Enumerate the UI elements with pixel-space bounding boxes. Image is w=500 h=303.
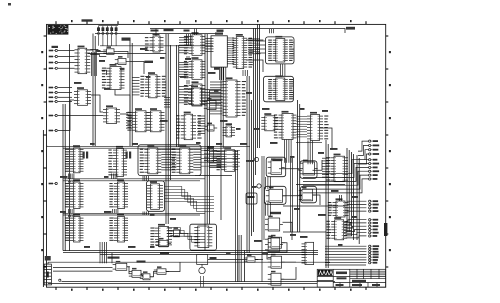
IC U49 bbox=[327, 217, 348, 240]
wire U5 top to bus b bbox=[196, 29, 198, 35]
cap C1 bbox=[83, 152, 85, 159]
wires top bus drop x186 bbox=[187, 34, 191, 46]
title block date bbox=[336, 284, 344, 286]
label ref 19 bbox=[104, 176, 109, 178]
wires J3 to gates bbox=[53, 268, 113, 272]
connector J1 pin 8 bbox=[49, 114, 58, 116]
label ref 16 bbox=[90, 143, 95, 145]
connector J2 pin 24 bbox=[369, 253, 379, 255]
title block sheet bbox=[352, 284, 362, 286]
IC U5 latch bbox=[184, 32, 206, 55]
label bottom note bbox=[137, 261, 146, 263]
connector J2 pin 11 bbox=[369, 200, 379, 202]
wire circles to U14 bbox=[58, 115, 103, 117]
flip-flop U46a bbox=[268, 235, 285, 248]
bus vertical data bus x253-260 bbox=[254, 25, 260, 233]
wire mid right 3 bbox=[283, 231, 326, 233]
label top note a bbox=[151, 30, 159, 32]
wire gate U3a out bbox=[117, 52, 128, 59]
IC U36 bbox=[65, 179, 83, 208]
wire U43a to U43b bbox=[279, 169, 302, 170]
wire U51b to U51c bbox=[141, 274, 143, 277]
label ref 7 bbox=[214, 90, 219, 92]
IC U41 bbox=[150, 224, 172, 247]
IC U29 bbox=[274, 111, 297, 140]
IC U9 ROM bbox=[233, 34, 253, 69]
IC U39 bbox=[65, 214, 83, 242]
connector J2 pin 20 bbox=[369, 235, 378, 237]
border tick marks bbox=[8, 3, 391, 291]
label ref 20 bbox=[60, 211, 66, 213]
gate U42a bbox=[170, 227, 182, 236]
label ref 41 bbox=[352, 196, 358, 198]
array row2 col1 rises bbox=[69, 181, 74, 183]
IC U40 bbox=[109, 214, 128, 242]
label ref 13 bbox=[196, 142, 201, 144]
flip-flop U46b bbox=[268, 254, 285, 268]
array row3 col1 rises bbox=[69, 215, 74, 217]
connector J4 bbox=[302, 242, 314, 264]
IC U22 bbox=[223, 123, 236, 137]
bus vertical x221 bbox=[221, 67, 223, 220]
IC U24 bbox=[268, 36, 293, 62]
wire mid connector bbox=[320, 128, 333, 150]
wire U48 up pair b bbox=[341, 195, 343, 201]
box RAM pair 1 bbox=[266, 37, 295, 64]
gate U51a bbox=[113, 261, 130, 270]
connector J2 pin 21 bbox=[369, 245, 380, 247]
oscillator Y1 bbox=[197, 254, 208, 273]
wire J1 to U2 bbox=[58, 62, 75, 64]
wires bus to box1 bbox=[256, 41, 266, 53]
wire U45a out bbox=[283, 222, 293, 240]
label U8 bbox=[215, 33, 223, 35]
gate U51b bbox=[129, 268, 144, 277]
wire u55 left bbox=[102, 70, 107, 75]
wire top bus 2 bbox=[100, 45, 213, 47]
label ref 48 bbox=[220, 120, 228, 122]
label signal name top-left bbox=[52, 46, 59, 48]
array row2 col1 drops bbox=[69, 209, 74, 214]
label FF section 2 bbox=[273, 159, 283, 161]
label ref 10 bbox=[300, 108, 305, 110]
label ref 37 bbox=[226, 252, 231, 254]
wire bottom bus 2 bbox=[63, 252, 318, 254]
wires FF col drops bbox=[266, 177, 271, 189]
label ref 32 bbox=[290, 234, 296, 236]
flip-flop U44a bbox=[266, 187, 286, 202]
wire row1 top b bbox=[63, 147, 224, 149]
label ref 18 bbox=[60, 176, 68, 178]
wires U6 left to bus bbox=[179, 62, 189, 76]
label bottom note 2 bbox=[108, 257, 120, 259]
wire bottom bus 1 bbox=[63, 250, 318, 252]
label ref 5 bbox=[185, 58, 191, 60]
wires U12 right bbox=[164, 98, 170, 107]
wire long bottom 2 bbox=[48, 283, 317, 285]
wires U29 to U30 bbox=[297, 117, 308, 137]
label ref 45 bbox=[74, 82, 82, 84]
label DL1 bbox=[248, 196, 255, 198]
wire bottom left bbox=[47, 262, 49, 264]
revision mark on right border bbox=[384, 223, 387, 236]
wire array row sep 2b bbox=[63, 214, 200, 216]
wire right bottom link bbox=[325, 264, 366, 266]
connector J1 pin 9 bbox=[49, 129, 58, 131]
wires osc to bottom edge bbox=[201, 276, 204, 287]
connector J2 pin 3 bbox=[369, 149, 379, 151]
wire long bottom bbox=[62, 280, 336, 282]
label ref 33 bbox=[254, 240, 262, 242]
connector J1 pin 10 bbox=[49, 182, 58, 184]
label ref 38 bbox=[262, 252, 268, 254]
box FF pair B bbox=[300, 161, 317, 179]
label ref 12 bbox=[160, 120, 168, 122]
label ref 28 bbox=[252, 186, 257, 188]
IC U56 small bbox=[204, 146, 217, 162]
IC U16 bbox=[127, 108, 149, 132]
IC U32 bbox=[65, 145, 83, 173]
gate U54 bbox=[244, 254, 258, 262]
wire J1 group2 bbox=[58, 87, 72, 89]
wire u55 bottom bbox=[115, 90, 130, 111]
wires U34 right to wires bbox=[161, 150, 176, 170]
wires to connector J2 bbox=[303, 141, 369, 263]
wire vert x262 bbox=[261, 156, 263, 282]
wire J1 to U2 bbox=[58, 50, 75, 52]
wire U4 top to bus bbox=[155, 29, 157, 37]
wire J1 to U2 bbox=[58, 67, 75, 69]
box FF pair C bbox=[301, 186, 317, 203]
label ref 29 bbox=[294, 208, 300, 210]
label FF section bbox=[270, 212, 281, 214]
label ref 40 bbox=[338, 244, 343, 246]
connector J2 pin 2 bbox=[369, 144, 380, 146]
cap C1b bbox=[86, 152, 88, 159]
connector J2 pin 6 bbox=[369, 162, 380, 164]
box FF pair A bbox=[266, 157, 286, 177]
U8 pin fan bbox=[227, 38, 234, 65]
wire vert x264 bbox=[263, 156, 265, 240]
delay box DL1 bbox=[246, 193, 257, 204]
wire top bus bbox=[95, 33, 215, 35]
wires U49 right bbox=[344, 222, 352, 236]
label ref 25 bbox=[290, 156, 295, 158]
label ref 34 bbox=[150, 246, 155, 248]
IC U2 buffer bbox=[75, 46, 91, 74]
wire J1 group2 bbox=[58, 96, 72, 98]
label ref 24 bbox=[246, 160, 254, 162]
connector J2 pin 18 bbox=[369, 228, 378, 230]
wires U5-U6 links bbox=[187, 56, 189, 60]
label ref 15 bbox=[240, 143, 248, 145]
label ref 42 bbox=[331, 190, 339, 192]
IC U37 bbox=[109, 179, 128, 208]
wire array row sep 1 bbox=[63, 178, 205, 180]
connector J2 pin 9 bbox=[369, 174, 378, 176]
wires box1 to box2 bbox=[281, 64, 285, 76]
bus vertical x239-245 bottom bbox=[239, 235, 245, 282]
wires array col1 to bottom gates bbox=[100, 242, 107, 263]
title block title text bbox=[337, 277, 347, 279]
title block logo bbox=[318, 270, 333, 276]
label J3 note bbox=[45, 256, 51, 261]
label above U11 bbox=[145, 61, 154, 63]
wire u9 to ram boxes 2 bbox=[246, 60, 263, 72]
label ref 43 bbox=[120, 68, 125, 70]
IC U48 bbox=[328, 198, 349, 217]
wire vert x235 bbox=[235, 150, 237, 282]
wire vert x237 bbox=[237, 150, 239, 282]
wire vert x292 bbox=[292, 158, 294, 232]
connector J2 pin 13 bbox=[369, 207, 378, 209]
box RAM pair 2 bbox=[264, 76, 294, 102]
wires U11 left to bus bbox=[132, 78, 139, 95]
label ref 2 bbox=[99, 60, 105, 62]
wire J1 to U2 bbox=[58, 56, 75, 58]
label ref 14 bbox=[216, 143, 222, 145]
gate U52b bbox=[156, 238, 171, 247]
connector J2 pin 27 bbox=[369, 262, 378, 264]
wire U46c out bbox=[281, 267, 296, 279]
connector J1 pin 7 bbox=[49, 100, 58, 102]
box U53 timer bbox=[190, 224, 217, 250]
title block drawing number bbox=[352, 280, 366, 282]
wire row1 top bbox=[48, 145, 250, 147]
wires U7 left to bus bbox=[179, 87, 189, 103]
label ref 3 bbox=[140, 48, 148, 50]
connector J1 pin 1 bbox=[49, 49, 58, 51]
wire mid right 2 bbox=[283, 205, 345, 207]
IC U17 bbox=[147, 108, 165, 132]
wires U30 drop bbox=[308, 141, 312, 165]
label ref 1 bbox=[96, 50, 101, 52]
wire U43b out bbox=[313, 160, 323, 170]
wire U48 up pair a bbox=[339, 195, 341, 201]
label ref 8 bbox=[246, 92, 252, 94]
bus vertical x205 bbox=[205, 34, 209, 251]
array row1 col2 drops bbox=[112, 174, 117, 180]
flip-flop U43b bbox=[300, 160, 318, 175]
label ref 31 bbox=[352, 216, 357, 218]
wire array row sep 1b bbox=[63, 180, 200, 182]
wires U18 right to bus bbox=[198, 116, 205, 134]
wire U15 to U16 bbox=[120, 114, 132, 116]
bus vertical x326 bbox=[326, 140, 328, 268]
wires U23 left from bus bbox=[210, 152, 222, 168]
gate U52a bbox=[154, 266, 169, 274]
IC U18 bbox=[176, 112, 202, 140]
label bottom bar bbox=[160, 252, 169, 254]
label ref 22 bbox=[150, 214, 155, 216]
IC U19 bbox=[188, 85, 205, 105]
IC U30 bbox=[307, 112, 329, 141]
label ref 50 bbox=[254, 128, 260, 130]
wires U19 right to bus bbox=[205, 90, 221, 104]
label ref 9 bbox=[262, 108, 270, 110]
wires U8 box drops bbox=[220, 67, 226, 80]
sheet border frame bbox=[43, 24, 385, 287]
box FF pair D bbox=[265, 186, 287, 204]
wire U46b out bbox=[282, 261, 297, 263]
wire U2 out right bbox=[87, 49, 93, 51]
bus vertical x247 bbox=[247, 76, 251, 253]
wires U21 left from bus bbox=[210, 82, 223, 114]
IC U35 bbox=[172, 145, 194, 174]
wire u30 bottom bbox=[296, 142, 322, 144]
wire mid right bbox=[296, 184, 345, 186]
label top note c bbox=[184, 30, 190, 32]
array row1 box drops bbox=[143, 176, 148, 181]
wire U44b out bbox=[313, 195, 321, 205]
connector J2 pin 12 bbox=[369, 203, 379, 205]
IC U28 bbox=[261, 113, 278, 131]
wires U6-U7 links bbox=[187, 80, 189, 84]
wire J1 group2 bbox=[58, 101, 72, 103]
IC U14 bbox=[74, 87, 91, 105]
wires U5 right to U8 bbox=[206, 39, 214, 52]
wire bottom bus 3 bbox=[100, 253, 318, 255]
IC U38 bbox=[147, 181, 163, 209]
label ref 11 bbox=[322, 110, 328, 112]
connector J2 pin 1 bbox=[369, 140, 378, 142]
connector J1 pin 4 bbox=[49, 86, 58, 88]
label ref 36 bbox=[128, 246, 136, 248]
wires U16 left to bus bbox=[126, 113, 132, 129]
label ref 51 bbox=[270, 142, 278, 144]
connector J2 pin 14 bbox=[369, 210, 379, 212]
wire U51c to U52a bbox=[150, 272, 157, 277]
wires FF col drops 2 bbox=[266, 202, 271, 216]
flip-flop U45b bbox=[265, 236, 283, 251]
bus vertical right cluster x347 bbox=[347, 148, 359, 244]
gate U51c bbox=[140, 271, 153, 279]
gate U20b bbox=[204, 123, 217, 131]
wire U51a to U51b bbox=[127, 267, 132, 274]
label ref 49 bbox=[236, 128, 241, 130]
IC U4 bbox=[145, 33, 164, 52]
label ref 35 bbox=[84, 246, 90, 248]
connector J2 pin 16 bbox=[369, 222, 378, 224]
connector J2 pin 15 bbox=[369, 219, 379, 221]
IC U21 decoder bbox=[223, 77, 247, 117]
wire U5 top to bus a bbox=[194, 29, 196, 35]
label ref 46 bbox=[146, 76, 151, 78]
wire u9 to ram boxes bbox=[246, 39, 263, 41]
connector J2 pin 7 bbox=[369, 166, 378, 168]
wire u23 bottom link bbox=[195, 175, 232, 177]
connector J2 pin 19 bbox=[369, 232, 379, 234]
wire top right power bbox=[150, 29, 345, 34]
flip-flop U46c bbox=[268, 271, 284, 285]
IC U53 bbox=[194, 226, 212, 248]
cap C2 bbox=[126, 152, 128, 159]
IC U55 bbox=[102, 64, 125, 90]
wire U54 out bbox=[255, 258, 263, 260]
connector J2 pin 5 bbox=[369, 159, 378, 161]
wires row2 box fan bbox=[165, 187, 215, 212]
title block company name bbox=[336, 272, 347, 275]
IC U26 bbox=[268, 75, 293, 100]
wires U35 right bbox=[193, 150, 201, 170]
flip-flop U43a bbox=[268, 158, 285, 174]
IC U15 bbox=[103, 105, 120, 123]
junction transistor Q2 bbox=[257, 184, 261, 188]
connector J2 pin 25 bbox=[369, 256, 379, 258]
connector J2 pin 22 bbox=[369, 248, 379, 250]
wires U29 drop to FF bbox=[285, 140, 292, 163]
cap C2b bbox=[129, 152, 131, 159]
label ref 27 bbox=[330, 148, 338, 150]
wires U2 outputs down bbox=[92, 52, 97, 76]
wire U44a to U44b bbox=[283, 195, 303, 197]
array row1 col1 drops bbox=[69, 174, 74, 180]
box row2 right bbox=[147, 181, 165, 212]
connector J1 pin 4 bbox=[49, 67, 58, 69]
connector J2 pin 26 bbox=[369, 259, 378, 261]
wires U2 to bus bbox=[90, 50, 106, 57]
label ref 21 bbox=[104, 211, 112, 213]
test point TP1 bbox=[59, 279, 61, 281]
array row2 box drops bbox=[143, 212, 148, 216]
IC U6 latch bbox=[184, 57, 206, 79]
label ref 6 bbox=[208, 72, 216, 74]
IC U7 latch bbox=[184, 81, 206, 106]
connector J1 pin 3 bbox=[49, 61, 58, 63]
wires row3 fan bbox=[167, 228, 205, 243]
label under U8 box bbox=[214, 68, 220, 70]
box row1 right bbox=[138, 145, 201, 176]
label ref 39 bbox=[300, 236, 308, 238]
bus vertical x166 bbox=[166, 34, 170, 225]
power label top right bbox=[346, 27, 355, 30]
wire mid bottom bbox=[48, 261, 330, 263]
wire J1 group2 bbox=[58, 92, 72, 94]
IC U11 bbox=[140, 72, 166, 98]
label ref 4 bbox=[160, 57, 165, 59]
title block rev bbox=[372, 284, 380, 286]
array row2 col2 drops bbox=[113, 209, 118, 214]
connector J1 pin 2 bbox=[49, 55, 58, 57]
wire array row sep 2 bbox=[63, 212, 205, 214]
IC U23 bbox=[217, 147, 239, 171]
wires mid drop x243 bbox=[243, 70, 247, 76]
IC U34 bbox=[140, 145, 162, 174]
label ref 26 bbox=[318, 152, 324, 154]
wires U24 tops bbox=[270, 29, 274, 33]
flip-flop U44b bbox=[299, 187, 316, 201]
label ref 23 bbox=[170, 218, 176, 220]
wire circles to U14 b bbox=[58, 100, 74, 131]
bus vertical left pair bbox=[63, 44, 70, 251]
wire U52a out bbox=[166, 262, 180, 272]
bus vertical x93 bbox=[93, 34, 95, 147]
gate U20a bbox=[204, 98, 219, 109]
connector J1 pin 5 bbox=[49, 91, 58, 93]
junction transistor Q1 bbox=[254, 157, 258, 161]
wire U46a feedback bbox=[267, 243, 287, 259]
connector J3 ladder bbox=[44, 264, 51, 285]
connector J2 pin 17 bbox=[369, 225, 379, 227]
pull-up resistor network RP1 bbox=[97, 26, 118, 46]
title block bbox=[317, 269, 386, 287]
label ref 44 bbox=[104, 88, 110, 90]
IC U8 CPU box bbox=[211, 36, 227, 67]
wires U47 left from bus bbox=[322, 158, 329, 177]
gate U3a bbox=[103, 46, 117, 54]
connector J2 pin 23 bbox=[369, 251, 379, 253]
IC U33 bbox=[108, 146, 127, 177]
